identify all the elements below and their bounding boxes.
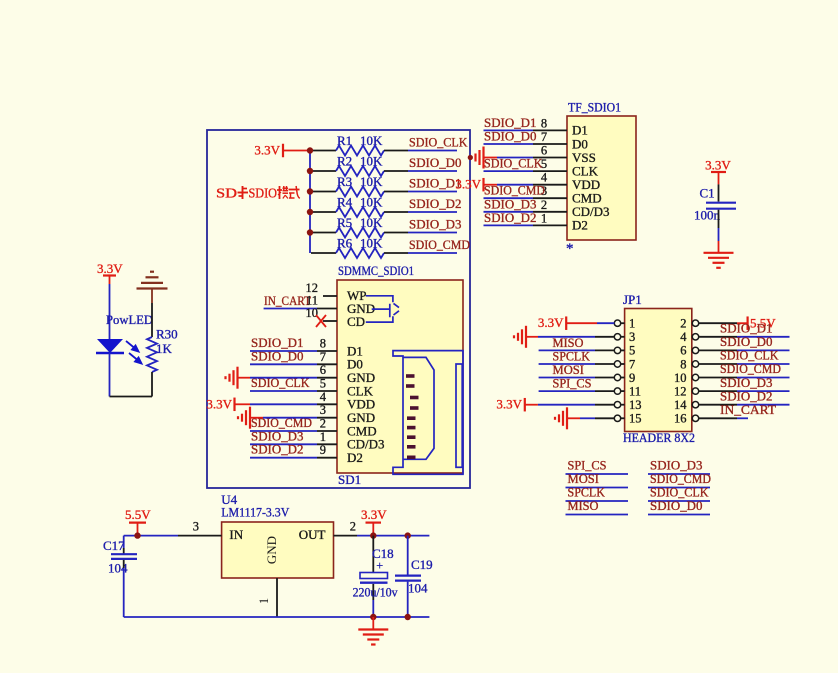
svg-text:MISO: MISO [568, 498, 599, 513]
svg-text:R5: R5 [337, 215, 352, 230]
svg-text:GND: GND [264, 536, 279, 564]
svg-text:2: 2 [350, 520, 356, 534]
svg-text:7: 7 [320, 350, 326, 364]
svg-text:14: 14 [674, 398, 687, 412]
svg-text:JP1: JP1 [623, 292, 642, 307]
svg-text:C1: C1 [700, 185, 715, 200]
svg-text:7: 7 [541, 130, 547, 144]
svg-text:15: 15 [629, 412, 642, 426]
svg-text:10: 10 [306, 306, 319, 320]
svg-text:R3: R3 [337, 174, 352, 189]
svg-text:3: 3 [320, 403, 326, 417]
svg-text:R1: R1 [337, 133, 352, 148]
svg-text:1: 1 [257, 598, 271, 604]
svg-text:8: 8 [541, 116, 547, 130]
svg-text:1: 1 [541, 211, 547, 225]
svg-text:8: 8 [680, 357, 686, 371]
svg-text:9: 9 [629, 371, 635, 385]
svg-text:R2: R2 [337, 154, 352, 169]
svg-text:3: 3 [193, 520, 199, 534]
svg-text:IN_CART: IN_CART [720, 402, 776, 417]
svg-text:10K: 10K [360, 215, 383, 230]
svg-text:2: 2 [680, 317, 686, 331]
svg-text:3.3V: 3.3V [455, 177, 481, 192]
svg-text:9: 9 [320, 443, 326, 457]
svg-text:5: 5 [629, 344, 635, 358]
svg-text:5: 5 [320, 377, 326, 391]
svg-text:3.3V: 3.3V [705, 158, 731, 173]
svg-text:3.3V: 3.3V [97, 261, 123, 276]
svg-text:6: 6 [320, 363, 326, 377]
svg-text:SDIO_D1: SDIO_D1 [409, 176, 462, 191]
svg-text:100n: 100n [694, 208, 721, 223]
svg-text:3: 3 [629, 330, 635, 344]
svg-text:D2: D2 [347, 450, 363, 465]
svg-text:SDIO_D0: SDIO_D0 [409, 155, 462, 170]
svg-text:SDIO: SDIO [249, 186, 278, 201]
svg-text:12: 12 [674, 384, 687, 398]
svg-text:LM1117-3.3V: LM1117-3.3V [221, 504, 290, 519]
svg-text:SDIO_D0: SDIO_D0 [251, 348, 304, 363]
svg-text:SDIO_D2: SDIO_D2 [409, 196, 462, 211]
svg-text:104: 104 [108, 561, 128, 576]
svg-text:SDMMC_SDIO1: SDMMC_SDIO1 [338, 263, 414, 278]
svg-text:5.5V: 5.5V [125, 507, 151, 522]
svg-text:10K: 10K [360, 236, 383, 251]
svg-text:3.3V: 3.3V [254, 143, 280, 158]
svg-text:SDIO_CMD: SDIO_CMD [409, 237, 470, 252]
svg-text:104: 104 [408, 581, 428, 596]
svg-text:SD1: SD1 [338, 472, 361, 487]
svg-text:10K: 10K [360, 154, 383, 169]
svg-text:SD: SD [216, 186, 237, 201]
svg-text:SDIO_CLK: SDIO_CLK [409, 135, 468, 150]
svg-text:2: 2 [541, 198, 547, 212]
svg-text:HEADER 8X2: HEADER 8X2 [623, 430, 695, 445]
svg-text:SDIO_D0: SDIO_D0 [484, 129, 537, 144]
svg-text:TF_SDIO1: TF_SDIO1 [568, 100, 621, 115]
svg-text:1K: 1K [156, 341, 173, 356]
svg-text:10K: 10K [360, 195, 383, 210]
svg-text:+: + [376, 558, 383, 573]
svg-text:8: 8 [320, 337, 326, 351]
svg-text:10K: 10K [360, 174, 383, 189]
svg-text:OUT: OUT [299, 527, 326, 542]
svg-text:6: 6 [680, 344, 686, 358]
svg-text:IN_CART: IN_CART [264, 293, 311, 308]
svg-text:D2: D2 [572, 218, 588, 233]
svg-text:4: 4 [680, 330, 687, 344]
svg-text:IN: IN [229, 527, 243, 542]
svg-text:C17: C17 [103, 538, 125, 553]
svg-text:4: 4 [320, 390, 327, 404]
svg-text:10: 10 [674, 371, 687, 385]
svg-text:11: 11 [629, 384, 641, 398]
svg-text:*: * [566, 241, 574, 257]
svg-text:220u/10v: 220u/10v [353, 584, 398, 599]
svg-text:C19: C19 [411, 557, 433, 572]
svg-text:13: 13 [629, 398, 642, 412]
svg-text:PowLED: PowLED [106, 312, 153, 327]
svg-text:CD: CD [347, 314, 365, 329]
svg-text:3.3V: 3.3V [206, 396, 232, 411]
svg-text:1: 1 [629, 317, 635, 331]
svg-text:3.3V: 3.3V [361, 507, 387, 522]
svg-text:SDIO_D2: SDIO_D2 [251, 442, 304, 457]
svg-text:16: 16 [674, 412, 687, 426]
svg-text:SDIO_D3: SDIO_D3 [409, 217, 462, 232]
svg-text:10K: 10K [360, 133, 383, 148]
svg-text:2: 2 [320, 417, 326, 431]
svg-text:R4: R4 [337, 195, 353, 210]
svg-text:SDIO_D0: SDIO_D0 [650, 498, 703, 513]
svg-text:7: 7 [629, 357, 635, 371]
svg-text:3.3V: 3.3V [538, 315, 564, 330]
svg-text:R30: R30 [156, 327, 178, 342]
svg-text:SPI_CS: SPI_CS [553, 376, 592, 391]
svg-text:1: 1 [320, 430, 326, 444]
svg-text:3.3V: 3.3V [496, 397, 522, 412]
svg-text:SDIO_D2: SDIO_D2 [484, 210, 537, 225]
svg-text:R6: R6 [337, 236, 353, 251]
